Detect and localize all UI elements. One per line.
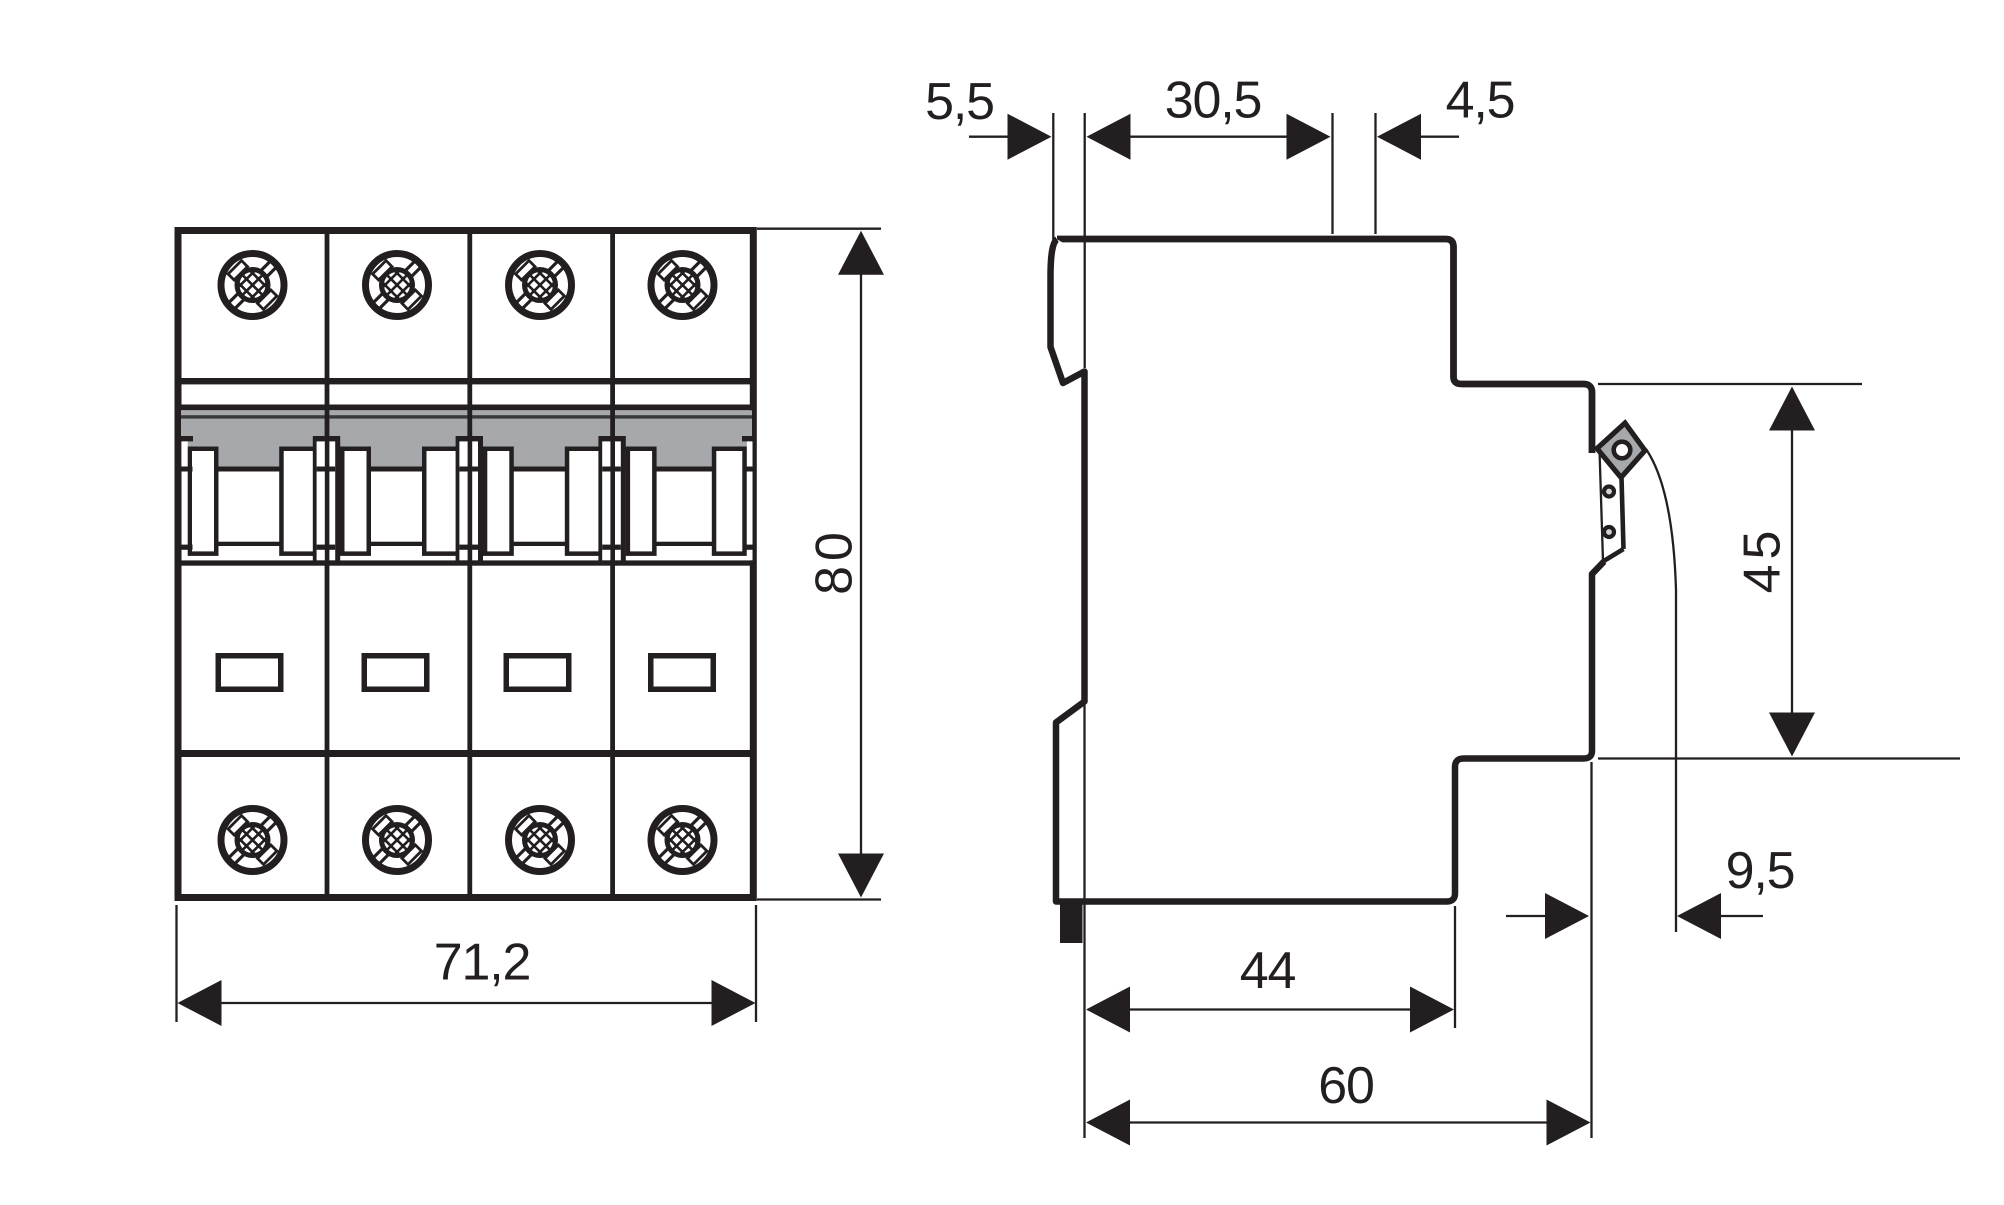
- svg-text:45: 45: [1734, 526, 1792, 594]
- svg-text:30,5: 30,5: [1165, 72, 1261, 130]
- svg-text:44: 44: [1240, 942, 1296, 1000]
- svg-text:5,5: 5,5: [925, 73, 994, 131]
- svg-text:9,5: 9,5: [1726, 842, 1795, 900]
- svg-text:71,2: 71,2: [434, 934, 530, 992]
- svg-text:80: 80: [806, 527, 864, 595]
- svg-text:4,5: 4,5: [1446, 72, 1515, 130]
- svg-text:60: 60: [1318, 1057, 1373, 1115]
